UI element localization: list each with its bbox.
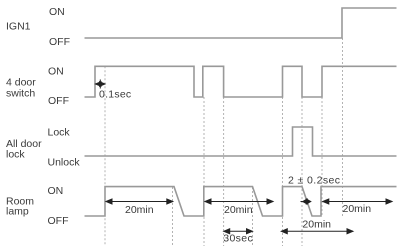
svg-text:OFF: OFF	[48, 215, 69, 227]
svg-text:switch: switch	[6, 88, 35, 100]
svg-text:OFF: OFF	[49, 36, 70, 48]
svg-text:ON: ON	[48, 65, 64, 77]
svg-text:20min: 20min	[224, 204, 253, 216]
svg-text:0.1sec: 0.1sec	[99, 89, 131, 101]
svg-text:20min: 20min	[125, 204, 154, 216]
svg-text:2 ± 0.2sec: 2 ± 0.2sec	[288, 175, 340, 187]
svg-text:20min: 20min	[343, 203, 372, 215]
svg-text:20min: 20min	[302, 219, 331, 231]
svg-text:ON: ON	[48, 185, 64, 197]
svg-text:OFF: OFF	[48, 95, 69, 107]
svg-text:Lock: Lock	[48, 127, 71, 139]
svg-text:lock: lock	[6, 149, 25, 161]
svg-text:30sec: 30sec	[223, 233, 253, 245]
svg-text:lamp: lamp	[6, 206, 29, 218]
svg-text:IGN1: IGN1	[6, 21, 31, 33]
svg-text:Unlock: Unlock	[48, 157, 81, 169]
svg-text:ON: ON	[49, 6, 65, 18]
